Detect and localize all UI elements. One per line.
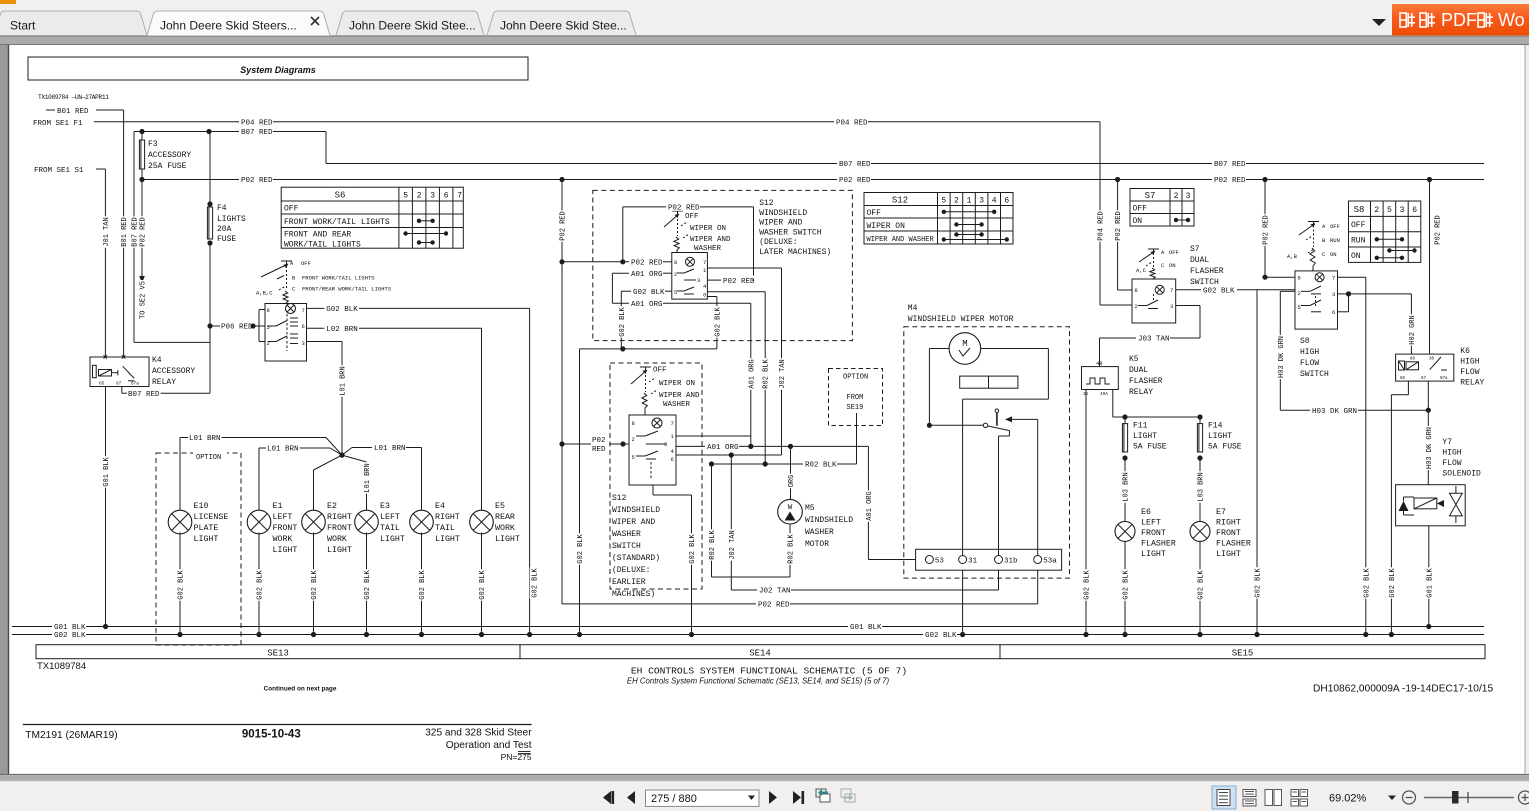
svg-text:MOTOR: MOTOR (805, 540, 829, 549)
svg-text:FRONT AND REAR: FRONT AND REAR (284, 231, 351, 240)
svg-text:A,B,C: A,B,C (256, 290, 273, 297)
wire G01 BLK from M4 31 (962, 570, 964, 634)
svg-text:7: 7 (703, 259, 706, 266)
svg-text:G01 BLK: G01 BLK (103, 456, 111, 486)
svg-text:5: 5 (632, 454, 635, 461)
dashed box S12 standard switch (610, 363, 702, 589)
svg-text:3: 3 (1400, 206, 1405, 215)
svg-text:Start: Start (10, 19, 36, 33)
motor M4 circle (949, 333, 981, 365)
svg-text:S8: S8 (1300, 337, 1310, 346)
lamp E1 (247, 510, 271, 534)
junction F14 top (1197, 414, 1202, 419)
M4 brush block (960, 376, 1018, 388)
gray divider strip under tabs (0, 36, 1529, 45)
svg-text:OFF: OFF (1169, 249, 1179, 256)
wire M4 internal (963, 398, 1049, 400)
table S8 states (1349, 201, 1421, 262)
svg-text:K6: K6 (1460, 347, 1470, 356)
wire G02 BLK below E4 (421, 533, 423, 635)
lamp E4 (410, 510, 434, 534)
zoom slider (1424, 797, 1514, 799)
svg-text:R02 BLK: R02 BLK (805, 462, 837, 470)
svg-text:LIGHT: LIGHT (273, 546, 298, 555)
S6 table contact dots row front work (419, 220, 433, 222)
wire L01 BRN to E10 (326, 438, 342, 456)
svg-text:5: 5 (267, 324, 270, 331)
svg-text:ACCESSORY: ACCESSORY (152, 367, 195, 376)
svg-text:2: 2 (674, 271, 677, 278)
wire P04 RED drop to S7 (1099, 122, 1101, 305)
svg-text:8: 8 (267, 307, 270, 314)
svg-text:20A: 20A (217, 225, 232, 234)
svg-text:LATER MACHINES): LATER MACHINES) (759, 248, 831, 257)
table S6 states (281, 187, 463, 248)
svg-text:P04 RED: P04 RED (1098, 211, 1106, 240)
nav last page button (793, 791, 801, 804)
header box System Diagrams (28, 57, 528, 80)
svg-text:49: 49 (1096, 360, 1103, 367)
svg-text:M4: M4 (908, 304, 918, 313)
svg-text:FROM SE1 S1: FROM SE1 S1 (34, 167, 84, 175)
wire P02 RED to S12 standard pin8 (562, 443, 629, 445)
wire P02 RED to S8 pin8 (1262, 177, 1267, 182)
svg-text:A,C: A,C (1136, 267, 1147, 274)
svg-text:OFF: OFF (1330, 223, 1340, 230)
junction P02 at S12 standard (559, 441, 564, 446)
switch S12 deluxe lever (672, 210, 683, 212)
switch S7 lever (1148, 248, 1159, 250)
svg-text:86: 86 (1410, 358, 1416, 362)
svg-text:LIGHT: LIGHT (1216, 550, 1241, 559)
svg-text:DUAL: DUAL (1190, 256, 1209, 265)
svg-text:2: 2 (417, 192, 422, 201)
wire J01 TAN vertical (104, 169, 106, 357)
svg-text:J02 TAN: J02 TAN (729, 530, 737, 559)
svg-text:6: 6 (444, 192, 449, 201)
svg-text:P02 RED: P02 RED (1435, 215, 1443, 244)
wire G02 BLK ground bus (12, 634, 52, 636)
svg-text:P02 RED: P02 RED (560, 211, 568, 240)
svg-text:G02 BLK: G02 BLK (364, 569, 372, 599)
wire G02 BLK below standard lamp (652, 485, 654, 495)
lamp E3 (355, 510, 379, 534)
svg-text:SE19: SE19 (847, 404, 864, 412)
svg-text:E10: E10 (194, 502, 209, 511)
svg-text:F3: F3 (148, 140, 158, 149)
svg-text:325 and 328 Skid Steer: 325 and 328 Skid Steer (425, 728, 532, 739)
svg-text:9015-10-43: 9015-10-43 (242, 728, 301, 740)
svg-text:OFF: OFF (301, 260, 311, 267)
svg-text:5: 5 (403, 192, 408, 201)
svg-text:H03 DK GRN: H03 DK GRN (1312, 408, 1357, 416)
wire J02 TAN row from standard pin6 (676, 454, 782, 456)
svg-text:49A: 49A (1100, 392, 1108, 397)
dashed box S12 deluxe switch (593, 190, 853, 340)
svg-text:8: 8 (1298, 275, 1301, 282)
junction M4 53 wire (927, 423, 932, 428)
continuous page layout icon (1243, 790, 1256, 797)
svg-text:6: 6 (1332, 309, 1335, 316)
svg-text:L01 BRN: L01 BRN (189, 435, 221, 443)
svg-text:R02 BLK: R02 BLK (788, 533, 796, 563)
lamp E5 (470, 510, 494, 534)
svg-text:TX1089784 —UN—27APR11: TX1089784 —UN—27APR11 (38, 94, 109, 101)
junction H03 at K6 87 (1426, 408, 1431, 413)
wire P02 RED vertical x562 (561, 180, 563, 604)
svg-text:J01 TAN: J01 TAN (103, 217, 111, 246)
svg-text:85: 85 (99, 382, 105, 387)
svg-text:G02 BLK: G02 BLK (1123, 569, 1131, 599)
wire P02 RED from M4 53a (1037, 570, 1039, 604)
svg-text:G02 BLK: G02 BLK (1389, 567, 1397, 597)
table S12 states (864, 193, 1013, 245)
svg-text:7: 7 (1332, 275, 1335, 282)
junction A01 x790 (788, 444, 793, 449)
svg-text:L02 BRN: L02 BRN (326, 326, 358, 334)
svg-text:L03 BRN: L03 BRN (1123, 472, 1131, 501)
wire B01 RED stub (46, 109, 55, 111)
wire L01 BRN to E1 (330, 448, 342, 455)
svg-text:P02 RED: P02 RED (241, 177, 273, 185)
svg-text:OFF: OFF (1351, 221, 1366, 230)
svg-text:FUSE: FUSE (217, 235, 236, 244)
svg-text:OFF: OFF (284, 205, 299, 214)
svg-text:FRONT WORK/TAIL LIGHTS: FRONT WORK/TAIL LIGHTS (284, 218, 390, 227)
svg-text:5A FUSE: 5A FUSE (1133, 443, 1167, 452)
svg-text:OFF: OFF (867, 209, 882, 218)
svg-text:SWITCH: SWITCH (1300, 370, 1329, 379)
svg-text:G02 BLK: G02 BLK (326, 306, 358, 314)
svg-text:DH10862,000009A -19-14DEC17-10: DH10862,000009A -19-14DEC17-10/15 (1313, 684, 1493, 695)
svg-text:S12: S12 (612, 494, 627, 503)
svg-text:LIGHT: LIGHT (380, 535, 405, 544)
svg-text:ACCESSORY: ACCESSORY (148, 151, 191, 160)
svg-text:G02 BLK: G02 BLK (532, 567, 540, 597)
S8 table dots RUN (1377, 238, 1402, 240)
svg-text:4: 4 (992, 197, 997, 206)
svg-text:G02 BLK: G02 BLK (178, 569, 186, 599)
svg-text:ON: ON (1133, 217, 1143, 226)
svg-text:R02 BLK: R02 BLK (763, 358, 771, 388)
relay K4 ACCESSORY (90, 357, 149, 387)
svg-text:B07 RED: B07 RED (128, 391, 160, 399)
svg-text:SE13: SE13 (267, 648, 289, 658)
svg-text:S8: S8 (1354, 205, 1365, 215)
svg-text:L03 BRN: L03 BRN (1198, 472, 1206, 501)
svg-text:John Deere Skid Steers...: John Deere Skid Steers... (160, 19, 297, 33)
svg-text:John Deere Skid Stee...: John Deere Skid Stee... (500, 19, 627, 33)
svg-text:FRONT WORK/TAIL LIGHTS: FRONT WORK/TAIL LIGHTS (302, 275, 375, 282)
svg-text:PLATE: PLATE (194, 524, 219, 533)
svg-text:FROM: FROM (847, 394, 864, 402)
svg-text:WORK: WORK (495, 524, 515, 533)
svg-text:EARLIER: EARLIER (612, 578, 646, 587)
junction on B07 at F4 (206, 129, 211, 134)
fuse F11 LIGHT 5A (1124, 417, 1126, 424)
wire P02 RED drop to S7 pin8 (1115, 177, 1120, 182)
table S7 states (1130, 189, 1194, 227)
wire B07 RED from K4 bottom (121, 387, 123, 394)
wire P02 RED main bus (142, 179, 239, 181)
svg-text:WASHER: WASHER (694, 245, 722, 253)
svg-text:5A FUSE: 5A FUSE (1208, 443, 1242, 452)
svg-text:REAR: REAR (495, 513, 515, 522)
svg-text:J02 TAN: J02 TAN (759, 588, 791, 596)
wire G02 BLK lower run (580, 348, 717, 350)
wire G02 BLK from S8 pin7 (1338, 276, 1366, 278)
svg-text:WIPER ON: WIPER ON (659, 380, 695, 388)
svg-text:87: 87 (116, 382, 122, 387)
svg-text:87a: 87a (1440, 377, 1448, 381)
svg-text:B01 RED: B01 RED (121, 217, 129, 246)
svg-text:7: 7 (1170, 287, 1173, 294)
wire P02 RED to deluxe pin8 (559, 259, 564, 264)
facing page layout icon (1265, 790, 1273, 806)
svg-text:WINDSHIELD WIPER MOTOR: WINDSHIELD WIPER MOTOR (908, 315, 1014, 324)
svg-text:LIGHT: LIGHT (435, 535, 460, 544)
wire G02 BLK below E10 (179, 533, 181, 635)
svg-text:WASHER SWITCH: WASHER SWITCH (759, 228, 822, 237)
svg-text:MACHINES): MACHINES) (612, 590, 655, 599)
svg-text:G02 BLK: G02 BLK (1203, 288, 1235, 296)
svg-text:E6: E6 (1141, 508, 1151, 517)
svg-text:G02 BLK: G02 BLK (714, 306, 722, 336)
nav next page button (769, 791, 777, 804)
svg-text:RUN: RUN (1330, 237, 1340, 244)
svg-text:Y7: Y7 (1442, 438, 1452, 447)
lamp E6 LEFT FRONT FLASHER (1115, 521, 1135, 541)
node L01 BRN distribution (339, 453, 344, 458)
svg-text:P02 RED: P02 RED (631, 260, 663, 268)
wire G02 BLK below E1 (258, 533, 260, 635)
svg-text:E3: E3 (380, 502, 390, 511)
svg-text:Wo: Wo (1498, 10, 1525, 30)
svg-text:WINDSHIELD: WINDSHIELD (612, 506, 660, 515)
wire A01 ORG vertical x752 (750, 303, 752, 446)
wire G02 BLK below E6 (1124, 542, 1126, 635)
S6 table contact dots row front and rear (406, 233, 446, 235)
svg-text:OPTION: OPTION (843, 374, 868, 382)
svg-text:P02 RED: P02 RED (758, 602, 790, 610)
svg-text:P02 RED: P02 RED (668, 205, 700, 213)
dashed OPTION FROM SE19 box (829, 369, 883, 426)
svg-text:P02 RED: P02 RED (723, 278, 755, 286)
svg-text:RELAY: RELAY (1129, 388, 1153, 397)
svg-text:G02 BLK: G02 BLK (577, 533, 585, 563)
svg-text:WORK: WORK (273, 535, 293, 544)
svg-text:S7: S7 (1145, 191, 1156, 201)
svg-text:L01 BRN: L01 BRN (267, 446, 299, 454)
wire G01 BLK from Y7 (1428, 526, 1430, 627)
svg-text:TAIL: TAIL (380, 524, 400, 533)
svg-text:FRONT/REAR WORK/TAIL LIGHTS: FRONT/REAR WORK/TAIL LIGHTS (302, 286, 392, 293)
switch S6 WORK LIGHTS SWITCH box (265, 304, 307, 362)
svg-text:System Diagrams: System Diagrams (240, 65, 316, 75)
svg-text:FLASHER: FLASHER (1190, 267, 1224, 276)
switch S8 box (1295, 271, 1338, 329)
svg-text:3: 3 (697, 277, 700, 284)
svg-text:WIPER AND: WIPER AND (659, 392, 700, 400)
wire S8 pin6 tie (1338, 311, 1349, 313)
svg-text:6: 6 (703, 292, 706, 299)
section boxes SE13 SE14 SE15 (36, 645, 520, 659)
junction F3 bottom on P02 (139, 177, 144, 182)
wire J03 TAN from S7 pin3 (1176, 305, 1200, 307)
svg-text:G02 BLK: G02 BLK (925, 632, 957, 640)
svg-text:A,B: A,B (1287, 253, 1298, 260)
svg-text:TM2191 (26MAR19): TM2191 (26MAR19) (25, 730, 117, 741)
svg-text:H03 DK GRN: H03 DK GRN (1278, 336, 1286, 378)
svg-text:HIGH: HIGH (1300, 348, 1319, 357)
svg-text:RIGHT: RIGHT (435, 513, 460, 522)
svg-text:S12: S12 (892, 196, 908, 206)
svg-text:31: 31 (968, 558, 978, 566)
svg-text:RELAY: RELAY (1460, 379, 1484, 388)
svg-text:SE14: SE14 (749, 648, 771, 658)
nav first page button (603, 791, 611, 804)
svg-text:ON: ON (1351, 252, 1361, 261)
wire P04 RED to S7 pin2 (1100, 304, 1132, 306)
lamp E7 RIGHT FRONT FLASHER (1190, 521, 1210, 541)
svg-text:FROM SE1 F1: FROM SE1 F1 (33, 120, 83, 128)
svg-text:WORK/TAIL LIGHTS: WORK/TAIL LIGHTS (284, 241, 361, 250)
wire L01 BRN to E2 (314, 455, 343, 470)
svg-text:WASHER: WASHER (663, 401, 691, 409)
wire P02 RED bottom run (562, 603, 756, 605)
wire R02 BLK left drop (711, 464, 713, 577)
svg-text:B07 RED: B07 RED (1214, 161, 1246, 169)
svg-text:G02 BLK: G02 BLK (633, 289, 665, 297)
wire G02 BLK below E2 (313, 533, 315, 635)
orange corner strip (0, 0, 16, 4)
svg-text:L01 BRN: L01 BRN (340, 366, 348, 395)
svg-text:6: 6 (1412, 206, 1417, 215)
svg-text:87a: 87a (131, 382, 139, 387)
svg-text:P04 RED: P04 RED (241, 120, 273, 128)
svg-text:S6: S6 (335, 191, 346, 201)
svg-text:G02 BLK: G02 BLK (1198, 569, 1206, 599)
svg-text:HIGH: HIGH (1460, 358, 1479, 367)
svg-text:TAIL: TAIL (435, 524, 455, 533)
wire A01 ORG deluxe pin2 (612, 272, 629, 274)
dashed box M4 (904, 327, 1070, 578)
wire R02 BLK below M5 (789, 524, 791, 577)
switch S7 box (1132, 279, 1176, 323)
svg-text:(DELUXE:: (DELUXE: (759, 238, 797, 247)
wire R02 BLK row (712, 463, 804, 465)
svg-text:J02 TAN: J02 TAN (779, 359, 787, 388)
svg-text:A01 ORG: A01 ORG (866, 491, 874, 520)
junction F11 top (1122, 414, 1127, 419)
svg-text:PDF: PDF (1441, 10, 1477, 30)
svg-text:8: 8 (674, 259, 677, 266)
zoom in button (1519, 791, 1529, 804)
svg-text:FLASHER: FLASHER (1129, 377, 1163, 386)
dashed OPTION box around E10 (156, 453, 241, 645)
svg-text:G02 BLK: G02 BLK (1363, 567, 1371, 597)
nav prev page button (627, 791, 635, 804)
svg-text:FRONT: FRONT (1141, 529, 1166, 538)
svg-text:EH CONTROLS SYSTEM FUNCTIONAL: EH CONTROLS SYSTEM FUNCTIONAL SCHEMATIC … (631, 666, 907, 677)
M4 park switch contact (929, 424, 983, 426)
svg-text:87: 87 (1421, 377, 1427, 381)
svg-text:TO SE2 V5: TO SE2 V5 (140, 281, 148, 319)
svg-text:F14: F14 (1208, 422, 1223, 431)
svg-text:LEFT: LEFT (1141, 519, 1161, 528)
svg-text:DUAL: DUAL (1129, 366, 1148, 375)
wire K5 to fuses (1112, 390, 1114, 418)
S7 table dots ON (1176, 219, 1188, 221)
svg-text:SE15: SE15 (1232, 648, 1254, 658)
wire L02 BRN from S6 pin6 to E5 (307, 327, 325, 329)
svg-text:P02 RED: P02 RED (1214, 177, 1246, 185)
svg-text:1: 1 (967, 197, 972, 206)
wire B07 RED vertical then over to F4 leg (133, 132, 135, 343)
svg-text:G02 BLK: G02 BLK (619, 306, 627, 336)
switch S8 lever (1308, 221, 1319, 223)
wire G02 BLK drop x1257 (1256, 290, 1258, 635)
svg-text:HIGH: HIGH (1442, 449, 1461, 458)
wire G01 BLK ground bus (12, 626, 52, 628)
wire L03 BRN to E7 (1199, 458, 1201, 521)
svg-text:E1: E1 (273, 502, 283, 511)
relay K6 HIGH FLOW (1396, 354, 1454, 381)
svg-text:B01 RED: B01 RED (57, 108, 89, 116)
svg-text:M: M (962, 339, 967, 349)
switch S12 deluxe box (672, 253, 708, 300)
svg-text:M5: M5 (805, 504, 815, 513)
wire L03 BRN to E6 (1124, 458, 1126, 521)
switch S12 standard lever (640, 366, 651, 368)
svg-text:FRONT: FRONT (1216, 529, 1241, 538)
svg-text:P02 RED: P02 RED (1115, 211, 1123, 240)
svg-text:LIGHT: LIGHT (194, 535, 219, 544)
svg-text:8: 8 (1135, 287, 1138, 294)
junction J02 x731 (729, 452, 734, 457)
relay K5 DUAL FLASHER (1082, 367, 1119, 390)
svg-text:B07 RED: B07 RED (241, 129, 273, 137)
svg-text:G02 BLK: G02 BLK (1255, 567, 1263, 597)
svg-text:LIGHT: LIGHT (327, 546, 352, 555)
svg-text:K4: K4 (152, 356, 162, 365)
svg-text:J03 TAN: J03 TAN (1138, 336, 1170, 344)
wire R02 BLK deluxe pin6 (707, 291, 765, 293)
svg-text:S12: S12 (759, 199, 774, 208)
svg-text:G02 BLK: G02 BLK (479, 569, 487, 599)
svg-text:6: 6 (302, 323, 305, 330)
wire R02 BLK from option box (856, 413, 858, 464)
svg-text:5: 5 (941, 197, 946, 206)
svg-text:WASHER: WASHER (612, 530, 641, 539)
svg-text:H03 DK GRN: H03 DK GRN (1426, 427, 1434, 469)
label B07 RED vertical (130, 216, 140, 247)
svg-text:B07 RED: B07 RED (839, 161, 871, 169)
svg-text:RED: RED (592, 446, 606, 454)
svg-text:30: 30 (1429, 358, 1435, 362)
svg-text:RELAY: RELAY (152, 378, 176, 387)
svg-text:LIGHTS: LIGHTS (217, 215, 246, 224)
svg-text:OFF: OFF (685, 213, 699, 221)
svg-text:WINDSHIELD: WINDSHIELD (759, 209, 807, 218)
wire A01 ORG from standard pin1 (676, 435, 751, 437)
svg-text:RUN: RUN (1351, 237, 1366, 246)
svg-text:7: 7 (457, 192, 462, 201)
page number box (646, 790, 760, 806)
svg-text:FLOW: FLOW (1460, 368, 1479, 377)
svg-text:EH Controls System Functional: EH Controls System Functional Schematic … (627, 677, 890, 686)
wire H03 DK GRN from K6 87 (1427, 381, 1429, 410)
